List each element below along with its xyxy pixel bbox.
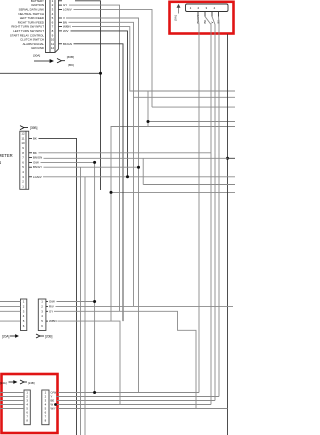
wire C1 pin5 V [66, 18, 139, 393]
wire h y107 [152, 106, 235, 108]
stub right from dot [228, 157, 236, 159]
arrow up symbol [177, 5, 180, 14]
junction dot trunk bottom [93, 391, 96, 394]
C4 pin2 stub [204, 12, 206, 17]
svg-text:BK: BK [33, 136, 37, 140]
wire [24B] BE row [57, 400, 215, 402]
splice arrow [34, 59, 65, 63]
svg-text:GY: GY [49, 309, 53, 313]
wire [20B] GY w/ jog [54, 311, 196, 408]
meter connector body [20, 131, 29, 189]
wire jog row y126.5 [111, 127, 148, 322]
junction dot O/W trunk lower [93, 300, 96, 303]
svg-text:N: N [0, 160, 1, 165]
wire C1 pin8 W/V [71, 31, 128, 177]
wire C1 pin3 LGN/V with jog [74, 9, 153, 107]
wire h y192.4 [111, 191, 235, 193]
svg-text:[30A]: [30A] [33, 54, 40, 58]
splice labels [30A] -> [30B] (BK) [33, 54, 74, 68]
meter pin stubs [29, 138, 32, 176]
junction dot O/W trunk [93, 161, 96, 164]
wire BK long right vertical [227, 34, 229, 435]
connector [20A] 6-pin body [21, 299, 27, 331]
wire C1 pin7 W/BN [72, 27, 235, 91]
meter connector [39B] top label [20, 126, 28, 130]
wire C1 pin11 BK/GN [74, 44, 124, 321]
connector C1 [30A] body [46, 0, 59, 53]
junction dot h121.5 [147, 120, 150, 123]
svg-text:LGN/V: LGN/V [33, 175, 42, 179]
[24B] arrow label [20, 380, 27, 384]
connector [24B] 8-pin body [42, 390, 49, 425]
svg-text:(BK): (BK) [68, 63, 74, 67]
wire C4 pin1 BN/GY [198, 17, 199, 393]
C1 wire colour labels [63, 3, 72, 46]
junction dot W row [54, 403, 57, 406]
svg-text:O/W: O/W [33, 160, 39, 164]
svg-text:[9A]: [9A] [174, 15, 178, 20]
wire [24B] O/W row [58, 392, 199, 394]
connector C1 [30A] left pin-function labels [10, 0, 44, 50]
svg-text:12: 12 [21, 132, 25, 136]
junction dot BK right [226, 157, 229, 160]
svg-text:[20A]: [20A] [2, 335, 10, 339]
wire h y184.5 [143, 184, 235, 186]
wire [24B] W/Y row [58, 408, 228, 410]
meter pin3 descender [84, 177, 86, 435]
svg-text:12: 12 [51, 46, 55, 50]
text SPEEDOMETER (cut) [0, 153, 13, 165]
C1 pin stubs [59, 1, 63, 44]
wire C1 pin6 BN [69, 22, 134, 306]
svg-text:METER: METER [0, 153, 13, 158]
wire [20B] W/BN [58, 321, 121, 404]
wire meter pin5 BN/GY row [44, 166, 139, 168]
wire C4 pin2 BK [205, 17, 211, 405]
left edge wires into [24A] [0, 393, 24, 409]
C4 pin3 stub [211, 12, 213, 17]
C4 wire labels rotated [196, 15, 221, 24]
svg-text:[24B]: [24B] [28, 381, 35, 385]
wire h y126.5 right part [148, 126, 235, 128]
wire h y97.3 tee from BN [134, 96, 236, 98]
svg-text:W/Y: W/Y [51, 407, 56, 411]
svg-text:LGN/V: LGN/V [63, 8, 72, 12]
connector [24A] 8-pin body [24, 390, 30, 425]
wire meter pin6 O/W [41, 161, 95, 163]
[20B] wire labels [49, 300, 57, 324]
svg-text:BK/GN: BK/GN [63, 42, 72, 46]
svg-text:[30B]: [30B] [67, 55, 74, 59]
svg-text:[24A]: [24A] [0, 381, 7, 385]
wire [20B] O/W [57, 301, 95, 303]
svg-text:11: 11 [21, 136, 24, 140]
svg-text:O/W: O/W [49, 300, 55, 304]
wire C4 pin3 V [212, 17, 215, 401]
connector C1 pin numbers 1-12 [51, 0, 55, 50]
wire BK ground horizontal [0, 72, 101, 74]
C4 pin1 stub [197, 12, 199, 17]
red highlight box top-right [170, 2, 234, 34]
wire [24B] W row [56, 404, 212, 406]
junction dot jog/h192 [110, 191, 113, 194]
wire [24B] Y row [56, 396, 219, 398]
wire meter pin8 BK joins V [39, 152, 212, 154]
svg-text:BN/GY: BN/GY [33, 165, 42, 169]
junction dot BN/GY on V line [137, 166, 140, 169]
wire meter pin3 LGN/V row [43, 176, 235, 178]
svg-text:10: 10 [21, 141, 25, 145]
meter wire labels [33, 136, 42, 178]
wire [20B] R/V [56, 305, 234, 307]
svg-text:BN/GN: BN/GN [33, 156, 42, 160]
svg-text:BK: BK [33, 151, 37, 155]
connector [20B] 6-pin body [38, 299, 46, 331]
wire C4 pin4 BK [218, 17, 221, 397]
svg-text:W/V: W/V [63, 29, 69, 33]
wire meter pin11 BK [39, 138, 77, 435]
junction dot W/V end [126, 175, 129, 178]
[20B] stubs [46, 302, 48, 322]
wire riser x148 [147, 91, 149, 127]
svg-text:GROUND: GROUND [31, 46, 44, 50]
left edge wires into [20A] [0, 302, 21, 322]
C4 pin4 stub [218, 12, 220, 17]
meter pin5 descender [80, 167, 82, 435]
wire O/W bus vertical [94, 162, 96, 392]
svg-text:W/BN: W/BN [49, 319, 57, 323]
[20B] arrow label [36, 334, 44, 338]
svg-text:[39B]: [39B] [30, 126, 38, 130]
meter pin numbers 12..1 [21, 132, 25, 189]
red highlight box bottom-left [2, 374, 58, 433]
junction dot trunk/BK [99, 72, 102, 75]
svg-text:[20B]: [20B] [45, 335, 53, 339]
[24B] wire labels [51, 391, 57, 411]
wire C1 pin2 GY [69, 5, 120, 311]
svg-text:BK: BK [203, 20, 207, 24]
wire p7 descender stub [142, 158, 144, 184]
connector C4 4-pin body [186, 4, 229, 12]
wire C1 pin1 battery / trunk [75, 1, 101, 190]
svg-text:R/V: R/V [49, 304, 54, 308]
wire meter pin7 BN/GN [44, 157, 228, 159]
